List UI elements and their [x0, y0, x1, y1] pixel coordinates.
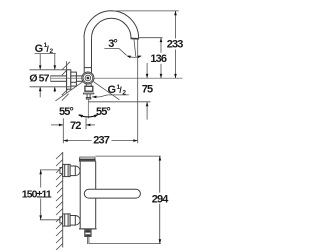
- svg-text:237: 237: [93, 135, 109, 147]
- dimension 237: [63, 134, 137, 146]
- svg-text:75: 75: [142, 84, 153, 96]
- dimension 294: [89, 156, 170, 244]
- G 1/2 inlet nipple: [50, 76, 66, 81]
- bottom outlet nipple: [85, 230, 91, 244]
- svg-text:136: 136: [150, 53, 166, 65]
- centerline below stem: [87, 99, 89, 118]
- extension line from spout top: [111, 10, 179, 12]
- body cylinder: [80, 161, 96, 228]
- wall hatching (bottom view): [56, 153, 63, 250]
- extension lines for 72/237: [63, 118, 86, 143]
- upper union cylinder: [70, 166, 75, 176]
- riser pipe: [84, 38, 91, 72]
- 55 degree rays: [55, 81, 119, 101]
- upper union thread: [60, 167, 63, 173]
- upper union hex nut: [63, 164, 70, 176]
- dimension 150±11: [21, 170, 60, 220]
- lower outlet extension line: [89, 101, 151, 103]
- svg-text:55°: 55°: [59, 106, 73, 118]
- valve body circles: [82, 72, 94, 84]
- upper union boss: [75, 166, 80, 176]
- dimension 136: [148, 38, 169, 79]
- dimension 72: [51, 120, 95, 132]
- extension line from outlet: [139, 37, 162, 39]
- svg-text:3°: 3°: [108, 38, 117, 50]
- swivel arc arrow: [79, 115, 98, 117]
- body bottom cap: [79, 228, 97, 230]
- leader arrows from G 1/2 label: [40, 54, 55, 98]
- svg-text:G: G: [35, 43, 43, 55]
- body top cap: [79, 157, 95, 161]
- lower union hex nut: [63, 214, 70, 226]
- escutcheon flange (Ø57): [67, 70, 71, 89]
- spout arch: [84, 11, 139, 40]
- svg-text:233: 233: [167, 39, 183, 51]
- svg-text:294: 294: [152, 193, 169, 205]
- 3 degree callout: [104, 40, 141, 144]
- svg-text:G: G: [108, 84, 116, 96]
- dimension 233: [165, 11, 186, 78]
- spout bar (plan): [84, 189, 140, 198]
- centerline: [50, 77, 182, 79]
- hex nut on flange: [71, 72, 77, 86]
- Ø57 label: [29, 72, 51, 85]
- wall (top view): [66, 61, 68, 92]
- dimension 75: [142, 63, 153, 120]
- shower outlet stem below valve: [83, 84, 94, 99]
- lower union cylinder: [70, 216, 75, 226]
- lower union thread: [60, 217, 63, 223]
- svg-text:72: 72: [70, 120, 81, 132]
- horizontal pipe to valve: [76, 76, 82, 81]
- svg-text:55°: 55°: [96, 106, 110, 118]
- Ø57 extension lines: [30, 70, 71, 87]
- wall (bottom view): [62, 152, 64, 248]
- wall hatching (top view): [62, 62, 70, 101]
- svg-text:Ø 57: Ø 57: [29, 73, 49, 85]
- svg-text:150±11: 150±11: [22, 188, 52, 200]
- lower union boss: [75, 216, 80, 226]
- G 1/2 label (right): [92, 84, 129, 97]
- G 1/2 label (top left): [35, 42, 56, 55]
